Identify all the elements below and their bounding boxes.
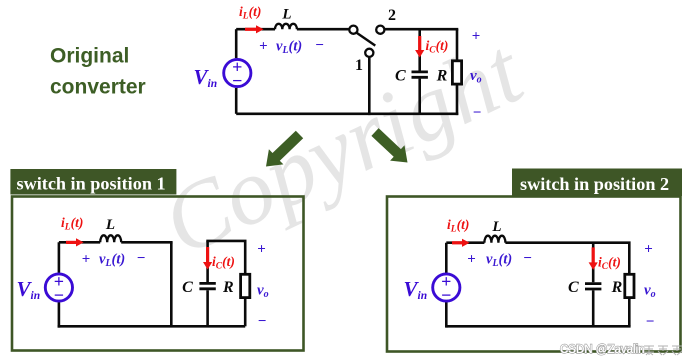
svg-text:L: L [491,219,501,235]
svg-text:−: − [523,251,532,267]
svg-text:−: − [54,285,64,305]
svg-text:vL(t): vL(t) [486,252,512,270]
svg-text:−: − [232,71,242,91]
svg-text:iL(t): iL(t) [61,215,83,233]
svg-text:converter: converter [50,76,146,99]
svg-text:Original: Original [50,45,129,68]
svg-text:iL(t): iL(t) [447,217,469,235]
svg-text:2: 2 [388,7,396,24]
svg-text:vL(t): vL(t) [99,252,125,270]
svg-text:−: − [258,314,267,330]
svg-text:+: + [644,242,653,258]
svg-text:switch in position 2: switch in position 2 [520,174,669,194]
svg-text:+: + [259,39,268,55]
svg-text:iC(t): iC(t) [426,38,449,56]
svg-text:C: C [395,68,406,85]
svg-text:CSDN @Zavalin: CSDN @Zavalin [560,344,645,356]
svg-text:+: + [467,252,476,268]
svg-text:+: + [257,242,266,258]
svg-text:iL(t): iL(t) [239,4,261,22]
svg-text:R: R [611,279,623,296]
svg-text:+: + [472,29,481,45]
svg-text:−: − [315,38,324,54]
svg-text:C: C [182,279,193,296]
svg-text:−: − [473,105,482,121]
svg-text:L: L [281,7,291,23]
svg-text:−: − [137,251,146,267]
svg-text:switch in position 1: switch in position 1 [17,174,166,194]
svg-text:vL(t): vL(t) [276,39,302,57]
svg-text:1: 1 [355,57,363,74]
svg-text:R: R [222,279,234,296]
svg-text:R: R [436,68,448,85]
svg-text:−: − [441,285,451,305]
svg-text:L: L [105,217,115,233]
svg-text:iC(t): iC(t) [212,254,235,272]
svg-text:−: − [646,314,655,330]
svg-text:+: + [82,252,91,268]
svg-text:C: C [568,279,579,296]
svg-text:iC(t): iC(t) [598,255,621,273]
